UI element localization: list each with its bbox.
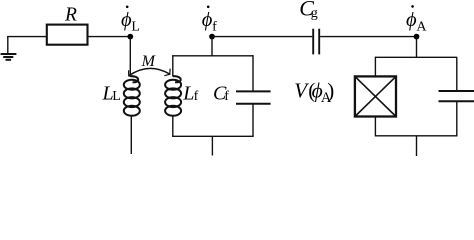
middle loop bottom edge	[172, 135, 254, 137]
middle bottom stub	[211, 136, 213, 155]
middle loop right branch upper	[252, 55, 254, 91]
wire phi_A down to right loop	[416, 37, 418, 58]
capacitor plates (right)	[439, 91, 474, 101]
right loop right branch lower	[456, 101, 458, 136]
middle loop left branch lower	[172, 115, 174, 136]
label C_g	[299, 0, 318, 21]
right loop left branch lower	[374, 117, 376, 137]
right loop left branch upper	[374, 57, 376, 77]
label phi_L with overdot	[121, 6, 140, 35]
label V(phi_A)	[294, 78, 334, 106]
svg-text:A: A	[416, 19, 427, 34]
node phi_f (dot)	[209, 34, 215, 40]
wire C_g to node phi_A	[320, 36, 417, 38]
wire node phi_L down to L_L	[129, 37, 131, 77]
svg-text:): )	[327, 79, 334, 103]
svg-text:f: f	[224, 89, 229, 104]
label L_L	[102, 82, 121, 104]
middle loop top edge	[173, 55, 253, 57]
svg-text:L: L	[182, 82, 194, 104]
right loop top edge	[375, 56, 457, 58]
svg-text:g: g	[311, 6, 318, 21]
Josephson junction box V(phi_A)	[355, 76, 396, 116]
middle loop left branch upper	[172, 55, 174, 76]
middle loop right branch lower	[252, 104, 254, 137]
svg-text:f: f	[194, 89, 199, 104]
label phi_f with overdot	[202, 6, 217, 35]
ground	[1, 37, 17, 60]
mutual inductance arrow M	[129, 68, 171, 77]
svg-text:ϕ: ϕ	[121, 9, 132, 31]
node phi_L (dot)	[127, 34, 133, 40]
right loop right branch upper	[456, 57, 458, 91]
wire ground to resistor	[7, 36, 47, 38]
label phi_A with overdot	[406, 5, 427, 34]
svg-text:ϕ: ϕ	[406, 9, 417, 31]
capacitor C_f plates	[236, 91, 271, 103]
label L_f	[182, 82, 198, 104]
svg-text:f: f	[212, 19, 217, 34]
node phi_A (dot)	[414, 34, 420, 40]
label C_f	[213, 82, 229, 104]
wire phi_f down to loop top	[211, 37, 213, 56]
svg-text:L: L	[131, 19, 140, 34]
inductor L_L (coil)	[124, 76, 140, 116]
wire L_L bottom stub	[130, 115, 132, 154]
right loop bottom edge	[375, 135, 457, 137]
wire resistor to node phi_L	[88, 36, 131, 38]
capacitor C_g plates	[313, 29, 319, 55]
wire phi_f to C_g	[212, 36, 312, 38]
svg-text:L: L	[112, 89, 121, 104]
right bottom stub	[416, 136, 418, 156]
svg-text:ϕ: ϕ	[202, 9, 213, 31]
svg-text:R: R	[64, 5, 77, 26]
inductor L_f (coil)	[165, 76, 181, 116]
svg-text:M: M	[141, 53, 157, 70]
resistor R1	[47, 25, 88, 45]
svg-text:V: V	[294, 78, 309, 102]
